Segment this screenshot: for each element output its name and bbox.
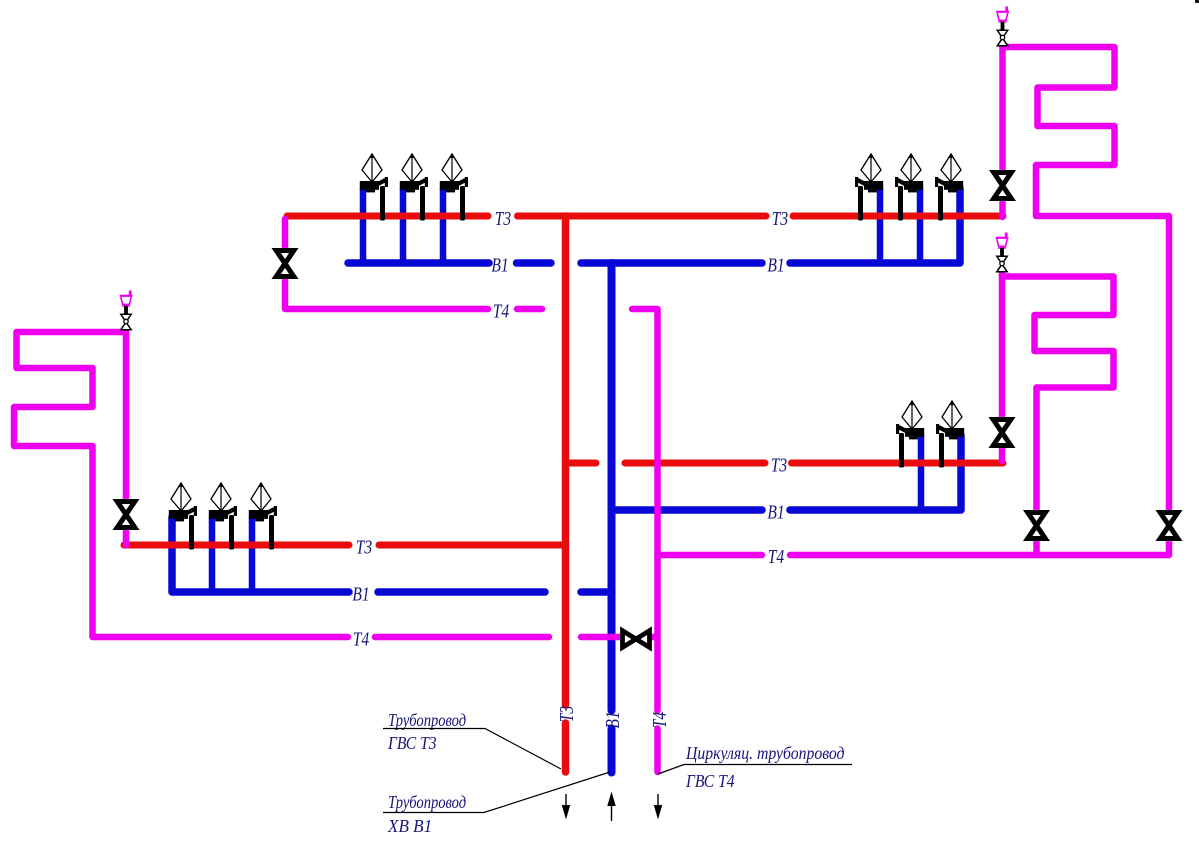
air vent towel warmer mid-right (996, 233, 1009, 272)
faucet group3-2 (209, 483, 237, 550)
corner artifact top right (1196, 0, 1199, 2)
svg-text:В1: В1 (352, 583, 369, 605)
arrow down T4 (657, 794, 659, 812)
main riser B1 (608, 263, 616, 711)
svg-text:В1: В1 (601, 711, 623, 728)
towel warmer mid-right: riser (999, 273, 1006, 461)
T4 elbow into main riser (632, 309, 658, 711)
faucet group3-3 (249, 483, 277, 550)
leader B1 (383, 772, 610, 813)
arrow up B1 (611, 803, 613, 821)
faucet group2-3 mirrored (935, 154, 963, 221)
svg-text:Т3: Т3 (356, 536, 372, 558)
faucet group4-2 mirrored (936, 401, 964, 468)
pipe B1 level1 right + elbow riser group2-3 (790, 188, 960, 263)
svg-text:Трубопровод: Трубопровод (388, 792, 466, 813)
pipe B1 level2 + elbow riser group4-2 (612, 506, 762, 514)
branch to T4 level1 with corner from T3 (285, 219, 488, 309)
pipe B1 level3 + elbow riser group3-1 (172, 517, 349, 592)
pipe T3 level3 (124, 542, 349, 549)
valve on return drop mid-right (1025, 510, 1047, 541)
main riser T4 lower (654, 729, 661, 773)
svg-text:Т4: Т4 (648, 712, 670, 728)
svg-text:Циркуляц. трубопровод: Циркуляц. трубопровод (685, 743, 844, 763)
valve towel warmer top-right riser (991, 170, 1013, 201)
faucet group2-2 mirrored (895, 154, 923, 221)
riser group1-1 (360, 188, 367, 263)
faucet group4-1 mirrored (896, 401, 924, 468)
riser group2-1 (877, 188, 884, 263)
faucet group2-1 mirrored (855, 154, 883, 221)
stub B1 level3 to main riser (581, 588, 612, 596)
riser group3-3 (249, 517, 256, 592)
svg-text:Т3: Т3 (555, 706, 577, 722)
riser group2-2 (917, 188, 924, 263)
leader T4 (658, 765, 852, 775)
valve towel warmer mid-right riser (991, 417, 1013, 448)
svg-text:ХВ В1: ХВ В1 (387, 816, 432, 837)
svg-text:Трубопровод: Трубопровод (388, 710, 466, 731)
arrow down T3 (565, 794, 567, 812)
riser group4-1 (918, 435, 925, 510)
air vent towel warmer top-right (996, 7, 1009, 46)
pipe T4 level3 segs (375, 634, 549, 641)
faucet group1-1 (360, 154, 388, 221)
valve on return drop far right (1158, 510, 1180, 541)
riser group1-3 (440, 188, 447, 263)
valve on T4 branch left (274, 248, 296, 279)
valve towel warmer left riser (115, 499, 137, 530)
svg-text:ГВС Т3: ГВС Т3 (387, 733, 437, 753)
towel warmer top-right: coil (1003, 47, 1170, 555)
towel warmer mid-right: coil (1002, 277, 1114, 556)
leader T3 (383, 729, 561, 770)
svg-text:Т4: Т4 (353, 628, 369, 650)
towel warmer left: coil (14, 332, 348, 637)
svg-text:Т4: Т4 (493, 300, 509, 322)
valve on T4 level3 horizontal (620, 628, 651, 650)
pipe B1 level1 left segs (348, 259, 489, 267)
svg-text:В1: В1 (767, 501, 784, 523)
riser group1-2 (400, 188, 407, 263)
svg-text:Т3: Т3 (772, 207, 788, 229)
pipe T4 level2 return (658, 552, 763, 559)
svg-text:Т4: Т4 (768, 545, 784, 567)
svg-text:Т3: Т3 (771, 454, 787, 476)
pipe T3 level2 (566, 460, 596, 467)
towel warmer left: riser (123, 332, 130, 545)
faucet group3-1 (169, 483, 197, 550)
svg-text:В1: В1 (491, 254, 508, 276)
main riser T3 (562, 216, 570, 705)
pipe T3 level1 (287, 213, 488, 220)
riser group3-2 (209, 517, 216, 592)
faucet group1-2 (400, 154, 428, 221)
svg-text:В1: В1 (767, 254, 784, 276)
svg-text:ГВС Т4: ГВС Т4 (685, 771, 735, 791)
towel warmer top-right: riser (999, 47, 1006, 217)
air vent towel warmer left (120, 291, 133, 330)
faucet group1-3 (440, 154, 468, 221)
svg-text:Т3: Т3 (495, 207, 511, 229)
